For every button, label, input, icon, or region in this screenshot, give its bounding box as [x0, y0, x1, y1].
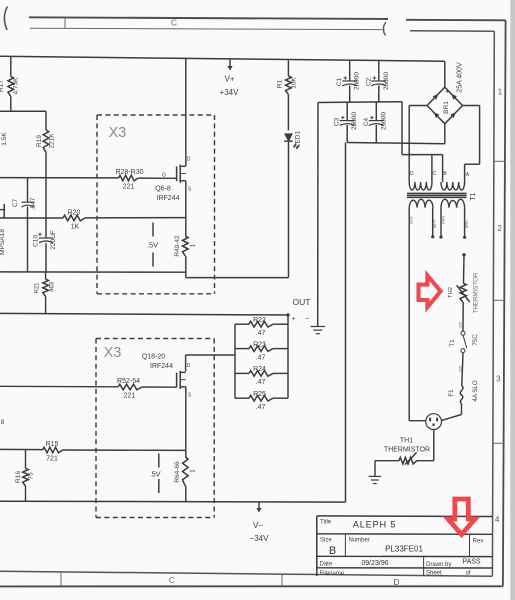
svg-text:1: 1: [190, 243, 197, 247]
label partial at left edge: [1, 419, 5, 426]
dashed block X3 (lower): [96, 339, 214, 518]
svg-text:Filename: Filename: [320, 571, 345, 577]
resistor R24 .47: [235, 366, 288, 386]
svg-text:10K: 10K: [291, 77, 298, 89]
svg-text:C7: C7: [12, 198, 19, 207]
capacitor C4 25000: [363, 102, 388, 143]
wire C7 trunk lower: [27, 207, 29, 272]
svg-text:.47: .47: [256, 354, 266, 361]
svg-text:R28-R30: R28-R30: [115, 169, 143, 176]
wire bridge AC1 to T1 pin D: [409, 106, 427, 183]
svg-text:−: −: [305, 316, 309, 323]
resistor R22 .47: [235, 317, 288, 337]
resistor R21 463: [35, 272, 56, 296]
svg-text:B: B: [329, 545, 336, 557]
resistor R40-42 1: [174, 235, 197, 257]
resistor R17 4.75K: [0, 57, 20, 111]
resistor R52-54 221: [117, 378, 142, 400]
svg-text:C3: C3: [334, 117, 341, 126]
transistor Q18-20 IRF244: [142, 354, 192, 399]
svg-text:C4: C4: [363, 117, 370, 126]
resistor R20 1K: [63, 210, 85, 231]
svg-text:R52-54: R52-54: [117, 378, 140, 385]
svg-text:R20: R20: [68, 210, 81, 217]
annotation arrow (points at title block Rev): [448, 499, 475, 535]
svg-text:25000: 25000: [383, 72, 390, 90]
wire R20 line (left segment): [0, 217, 63, 219]
transistor Q6-8 IRF244: [155, 157, 192, 203]
svg-text:R40-42: R40-42: [174, 235, 181, 257]
label T1 lead wire colors: [410, 216, 469, 229]
power flag V+ +34V: [220, 59, 240, 98]
wire R20 to Q6-8 source trunk: [85, 217, 186, 219]
svg-text:R64-66: R64-66: [174, 461, 181, 483]
svg-text:T1: T1: [449, 339, 456, 347]
svg-text:D: D: [410, 171, 414, 177]
connector AC plug: [409, 414, 441, 430]
capacitor C3 25000: [334, 102, 359, 143]
svg-text:WHT: WHT: [433, 219, 437, 228]
svg-text:BRN: BRN: [465, 220, 469, 228]
wire OUT+ line: [0, 313, 288, 315]
capacitor C1 25000: [336, 61, 361, 102]
wire T1 primary lead 2: [431, 208, 434, 239]
wire F1 to plug: [441, 404, 461, 421]
dashed block X3 (upper): [97, 115, 215, 294]
svg-text:.5V: .5V: [149, 470, 160, 479]
svg-text:G: G: [162, 173, 166, 179]
wire bridge minus to rail: [444, 124, 446, 144]
power flag V- -34V: [250, 502, 270, 543]
wire R19/C10 trunk: [45, 152, 47, 272]
svg-text:Number: Number: [349, 538, 370, 544]
svg-text:.47: .47: [256, 330, 266, 337]
svg-text:ALEPH 5: ALEPH 5: [353, 520, 396, 530]
wire R15 to Q18-20 source trunk: [63, 449, 186, 451]
svg-text:D: D: [393, 577, 399, 587]
svg-text:R22: R22: [253, 317, 266, 324]
resistor value 1.5K (partial, cut at edge): [1, 132, 8, 146]
ground (TH1): [369, 476, 382, 483]
thermistor TH2: [448, 283, 470, 303]
svg-text:Sheet: Sheet: [426, 571, 442, 577]
wire bridge AC2 to T1 pin A: [463, 106, 480, 183]
wire rectifier minus rail (C3/C4 bottoms): [347, 143, 445, 144]
resistor R25 .47: [235, 391, 288, 411]
wire plug to TH1: [417, 430, 434, 461]
wire R16 hanger: [25, 450, 27, 502]
svg-text:1: 1: [498, 88, 503, 97]
svg-text:Q6-8: Q6-8: [155, 186, 171, 193]
resistor R28-R30 221: [115, 169, 143, 190]
svg-text:221: 221: [124, 393, 136, 400]
wire T1 primary lead 3: [439, 208, 442, 239]
svg-text:TH1: TH1: [400, 438, 413, 445]
svg-text:C: C: [433, 171, 437, 177]
svg-text:X3: X3: [104, 345, 122, 361]
wire gate line to R28-R30 (left segment): [0, 177, 119, 179]
svg-text:S: S: [188, 187, 192, 193]
resistor R19 221K: [36, 130, 56, 152]
wire R22-R25 left bus: [234, 324, 236, 398]
thermistor TH1: [384, 438, 430, 465]
wire gate line to R52-54 (left segment): [0, 385, 118, 388]
wire mid rail to T1 pins B/C: [402, 102, 443, 182]
wire thermal switch to F1: [462, 353, 463, 386]
svg-text:+34V: +34V: [220, 88, 240, 97]
svg-text:R23: R23: [253, 341, 266, 348]
wire C7 trunk upper: [27, 178, 29, 203]
svg-text:09/23/96: 09/23/96: [361, 560, 388, 567]
svg-text:25000: 25000: [380, 112, 387, 130]
wire T1 primary lead 4: [463, 208, 466, 239]
svg-text:of: of: [466, 571, 471, 577]
wire ground riser from mid rail: [317, 103, 319, 327]
resistor R16 75: [15, 468, 35, 486]
svg-text:Date: Date: [320, 562, 333, 568]
diode LED1: [284, 130, 302, 277]
svg-text:R1: R1: [277, 79, 284, 88]
wire bridge plus to V+ rail: [444, 61, 446, 87]
svg-text:R17: R17: [0, 80, 5, 92]
wire LED1 return line: [186, 277, 289, 279]
svg-text:R21: R21: [35, 282, 41, 294]
label OUT: [293, 297, 311, 307]
svg-text:PASS: PASS: [462, 559, 480, 566]
wire V- rail -34V: [0, 500, 346, 503]
title block: [317, 516, 493, 577]
svg-text:C1: C1: [336, 77, 343, 86]
resistor R64-66 1: [174, 457, 197, 486]
wire Q18-20 drain riser: [185, 355, 187, 372]
svg-text:−34V: −34V: [250, 534, 270, 543]
node mains feed: [462, 253, 465, 283]
svg-text:.47: .47: [256, 379, 266, 386]
svg-text:C: C: [169, 575, 175, 585]
svg-text:S: S: [188, 393, 192, 399]
capacitor C10 220UF: [33, 230, 58, 250]
svg-text:220UF: 220UF: [50, 230, 57, 250]
svg-text:1K: 1K: [71, 224, 80, 231]
label 25A 400V: [457, 62, 464, 93]
svg-text:V−: V−: [253, 521, 263, 530]
svg-text:C10: C10: [33, 235, 40, 247]
svg-text:IRF244: IRF244: [150, 363, 173, 370]
svg-text:4: 4: [495, 515, 500, 524]
wire Q18-20 source trunk lower: [185, 387, 187, 502]
wire R52-54 to Q18-20 gate: [142, 386, 177, 388]
svg-text:+: +: [291, 316, 295, 323]
svg-text:BLK: BLK: [410, 216, 414, 224]
svg-text:TH2: TH2: [448, 287, 454, 298]
svg-text:V+: V+: [224, 75, 234, 84]
annotation .5V (lower): [149, 454, 160, 494]
svg-text:R24: R24: [253, 366, 266, 373]
annotation arrow (points at TH2): [419, 275, 441, 307]
svg-text:325: 325: [459, 322, 463, 328]
svg-text:MPSA18: MPSA18: [0, 229, 6, 255]
svg-text:4.75K: 4.75K: [13, 77, 20, 95]
wire R21 to OUT line: [45, 296, 47, 313]
svg-text:.047: .047: [30, 197, 37, 210]
svg-text:721: 721: [46, 456, 58, 463]
wire mid (ground) rail between C1/C2 and C3/C4: [318, 101, 402, 104]
wire T1 primary lead (to plug): [408, 208, 410, 421]
svg-text:R25: R25: [253, 391, 266, 398]
fuse F1 4A SLO: [448, 380, 479, 403]
wire Q6-8 drain trunk from V+ rail: [185, 58, 187, 166]
svg-text:Title: Title: [320, 519, 332, 525]
svg-text:75C: 75C: [472, 334, 479, 346]
svg-text:THERMISTOR: THERMISTOR: [473, 272, 480, 313]
bridge rectifier BR1: [427, 87, 462, 124]
node OUT+ terminal: [286, 313, 295, 323]
wire R22-R25 right bus: [287, 315, 289, 398]
wire node line below R17: [0, 110, 46, 112]
wire Q6-8 source trunk: [185, 181, 187, 236]
svg-text:463: 463: [50, 281, 56, 292]
svg-text:25A 400V: 25A 400V: [457, 62, 464, 93]
svg-text:.47: .47: [256, 404, 266, 411]
svg-text:PL33FE01: PL33FE01: [385, 545, 423, 554]
svg-text:2: 2: [497, 224, 502, 233]
wire T1 pin C riser: [431, 155, 433, 182]
svg-text:1.5K: 1.5K: [1, 132, 8, 146]
ground (output return): [311, 327, 326, 334]
svg-text:1: 1: [190, 469, 197, 473]
svg-text:Drawn by: Drawn by: [426, 562, 451, 568]
svg-text:Q18-20: Q18-20: [142, 354, 165, 361]
wire R15 line (left segment): [0, 448, 43, 450]
svg-text:OUT: OUT: [293, 297, 311, 307]
wire node line y272: [0, 271, 186, 273]
svg-text:8: 8: [1, 419, 5, 426]
wire TH2 to thermal switch: [462, 303, 464, 332]
svg-text:3: 3: [496, 375, 501, 384]
capacitor C7 .047: [12, 197, 37, 210]
transformer T1: [407, 171, 477, 207]
svg-text:T1: T1: [470, 192, 477, 200]
svg-text:A: A: [466, 172, 470, 178]
label OUT- terminal: [305, 316, 309, 323]
thermal switch T1 75C: [449, 322, 479, 372]
svg-text:25000: 25000: [354, 72, 361, 90]
svg-text:R16: R16: [15, 471, 22, 483]
wire Q18-20 drain to R22-25 bus: [186, 354, 235, 356]
svg-text:C2: C2: [365, 77, 372, 86]
wire R28-R30 to Q6-8 gate: [138, 177, 176, 179]
wire R40-42 to LED junction: [185, 256, 187, 278]
wire TH1 to ground: [375, 461, 399, 477]
wire V+ rail +34V: [0, 56, 445, 61]
svg-text:B: B: [443, 171, 447, 177]
wire V- riser to rectifier minus: [345, 143, 347, 503]
svg-text:25000: 25000: [351, 112, 358, 130]
svg-text:Size: Size: [320, 538, 332, 544]
svg-text:R15: R15: [46, 441, 59, 448]
annotation .5V (upper): [147, 223, 158, 267]
svg-text:GRN: GRN: [442, 216, 446, 225]
svg-text:IRF244: IRF244: [157, 195, 180, 202]
svg-text:X3: X3: [109, 125, 127, 141]
svg-text:4A SLO: 4A SLO: [472, 380, 479, 402]
svg-text:LED1: LED1: [295, 130, 302, 147]
svg-text:THERMISTOR: THERMISTOR: [384, 447, 430, 454]
svg-text:D: D: [187, 157, 191, 163]
svg-text:221K: 221K: [49, 133, 56, 149]
capacitor C2 25000: [365, 61, 390, 102]
wire R17 bottom to R19 top: [45, 111, 47, 130]
label THERMISTOR (TH2): [473, 272, 480, 313]
svg-text:R19: R19: [36, 135, 43, 147]
svg-text:Rev: Rev: [473, 539, 484, 545]
resistor R15 721: [43, 441, 63, 462]
svg-text:D: D: [187, 363, 191, 369]
svg-text:C: C: [171, 18, 177, 28]
svg-text:75: 75: [28, 472, 35, 480]
svg-text:.5V: .5V: [147, 241, 158, 250]
svg-text:BR1: BR1: [443, 101, 450, 114]
svg-text:221: 221: [123, 184, 135, 191]
svg-text:F1: F1: [448, 389, 455, 397]
transistor MPSA18 (partial, cut at edge): [0, 204, 6, 255]
resistor R1 10K: [277, 61, 298, 131]
resistor R23 .47: [235, 341, 288, 361]
